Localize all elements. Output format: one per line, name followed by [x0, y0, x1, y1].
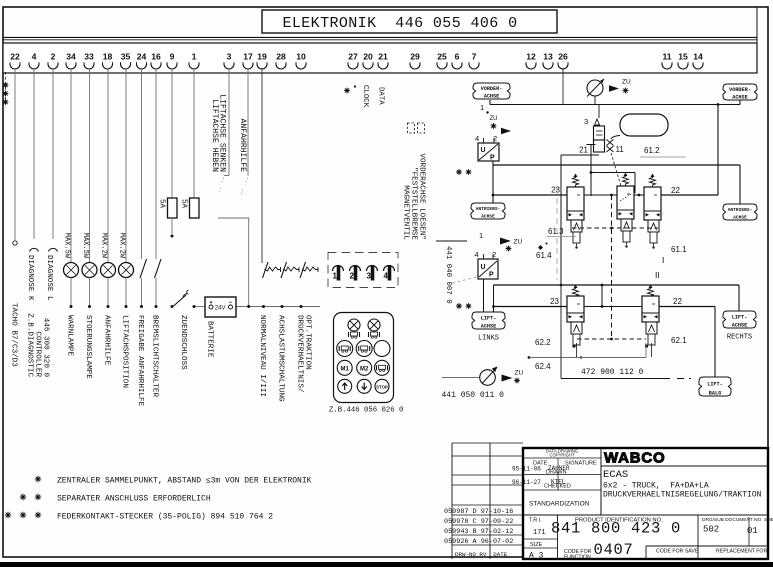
svg-text:RECHTS: RECHTS	[727, 334, 752, 342]
lamp ANFAHRHILFE (pin 18)	[100, 68, 116, 366]
svg-text:MAX.5W: MAX.5W	[63, 233, 71, 259]
svg-text:23: 23	[550, 297, 559, 306]
35-pin connector marking (three asterisks) on left frame	[3, 72, 9, 105]
svg-text:VORDER-: VORDER-	[481, 86, 503, 92]
pin 19	[257, 52, 267, 70]
svg-text:I: I	[662, 255, 664, 265]
svg-text:12: 12	[526, 52, 536, 62]
pin 15	[678, 52, 688, 70]
wire pin 3 (LIFTACHSE HEBEN)	[219, 68, 229, 192]
svg-text:441 040 007 0: 441 040 007 0	[444, 246, 452, 304]
central-point asterisk at pin 27	[344, 85, 356, 93]
svg-text:FUNCTION: FUNCTION	[564, 555, 591, 561]
pressure sensor 441 050 011 0	[442, 367, 524, 401]
svg-text:19: 19	[257, 52, 267, 62]
svg-text:ACHSE: ACHSE	[732, 322, 748, 328]
svg-text:Z.B.DIAGNOSTIC: Z.B.DIAGNOSTIC	[26, 313, 34, 377]
svg-text:24: 24	[137, 52, 147, 62]
svg-text:BREMSLICHTSCHALTER: BREMSLICHTSCHALTER	[151, 315, 159, 397]
svg-text:3: 3	[227, 52, 232, 62]
svg-text:13: 13	[543, 52, 553, 62]
LIFTACHSE RECHTS banner	[723, 311, 756, 342]
pin 13	[543, 52, 553, 70]
svg-text:ACHSLASTUMSCHALTUNG: ACHSLASTUMSCHALTUNG	[277, 315, 285, 402]
pin 29	[410, 52, 420, 70]
solenoid valve 23 (upper left)	[567, 174, 584, 249]
code for function 0407	[564, 515, 768, 561]
svg-text:5A: 5A	[180, 199, 188, 209]
svg-text:26: 26	[558, 52, 568, 62]
svg-text:22: 22	[671, 186, 680, 195]
port 61.3 label	[547, 227, 576, 237]
svg-text:059987 D 97-10-16: 059987 D 97-10-16	[444, 508, 513, 516]
ZU marking at sensor	[609, 79, 631, 94]
svg-text:1: 1	[480, 103, 484, 112]
LIFT-BALG banner	[699, 377, 731, 396]
svg-text:WABCO: WABCO	[604, 450, 666, 467]
wire port 22 (lower) to lift bag	[659, 297, 715, 377]
wire between valve A and valve B	[584, 194, 617, 197]
svg-text:ZUENDSCHLOSS: ZUENDSCHLOSS	[179, 315, 187, 370]
svg-text:LIFT-: LIFT-	[732, 315, 748, 321]
switch NORMALNIVEAU I/III	[258, 262, 280, 397]
svg-text:MAX.2W: MAX.2W	[100, 233, 108, 259]
svg-text:LIFT-: LIFT-	[481, 316, 497, 322]
switch FREIGABE ANFAHRHILFE (pin 24)	[136, 68, 146, 407]
port 61.2 label	[640, 146, 686, 157]
svg-text:DIAGNOSE K: DIAGNOSE K	[26, 255, 34, 301]
pin 22	[10, 52, 20, 70]
separate connection marking (U/P2)	[456, 303, 471, 309]
svg-text:ANFAHRHILFE: ANFAHRHILFE	[103, 315, 111, 366]
svg-text:4: 4	[475, 134, 479, 143]
svg-text:61.2: 61.2	[644, 146, 660, 155]
pin 18	[103, 52, 113, 70]
svg-text:62.4: 62.4	[535, 362, 551, 371]
svg-text:TACHO B7/C3/D3: TACHO B7/C3/D3	[10, 303, 18, 367]
svg-text:ZU: ZU	[515, 370, 524, 377]
label 441 040 007 0	[444, 246, 477, 304]
switch DRUCKVERHAELTNIS/	[296, 262, 318, 393]
valve 3 (pressure limiter)	[584, 105, 605, 152]
svg-text:25: 25	[437, 52, 447, 62]
wire port 22 to front-axle riser	[661, 105, 718, 196]
svg-text:62.2: 62.2	[535, 338, 551, 347]
ECU connector strip	[3, 43, 757, 73]
switch ACHSLASTUMSCHALTUNG	[277, 262, 299, 402]
pin 17	[243, 52, 253, 70]
lamp STOERUNGSLAMPE (pin 33)	[81, 68, 97, 379]
pin 1	[189, 52, 199, 70]
svg-text:441 050 011 0: 441 050 011 0	[442, 391, 505, 400]
svg-text:9: 9	[170, 52, 175, 62]
wire U/P2 to lift axle banner	[483, 279, 485, 312]
throttle 11	[607, 136, 625, 187]
svg-text:ECAS: ECAS	[603, 469, 628, 481]
ANTRIEBSACHSE left banner	[471, 203, 505, 219]
pin 10	[296, 52, 306, 70]
connector (4-pole) dashed box	[328, 253, 398, 288]
svg-text:61.4: 61.4	[536, 251, 552, 260]
svg-text:OPT.TRAKTION: OPT.TRAKTION	[304, 315, 312, 370]
pin 21	[378, 52, 388, 70]
svg-text:NORMALNIVEAU I/III: NORMALNIVEAU I/III	[258, 315, 266, 397]
svg-text:ZU: ZU	[514, 239, 523, 246]
wire pin 22 to tacho	[14, 68, 16, 240]
product identification no	[551, 518, 681, 538]
svg-text:4: 4	[475, 250, 479, 259]
svg-text:LIFTACHSPOSITION: LIFTACHSPOSITION	[121, 315, 129, 388]
svg-text:CHECKED: CHECKED	[544, 484, 571, 490]
pin 2	[48, 52, 58, 70]
svg-text:"FESTSTELLBREMSE: "FESTSTELLBREMSE	[410, 167, 418, 240]
svg-text:5A: 5A	[158, 199, 166, 209]
switch BREMSLICHTSCHALTER (pin 16)	[151, 68, 161, 397]
svg-text:STANDARDIZATION: STANDARDIZATION	[529, 501, 590, 508]
pin 7	[469, 52, 479, 70]
svg-text:DATA: DATA	[377, 87, 385, 105]
svg-text:II: II	[655, 270, 660, 280]
svg-text:62.1: 62.1	[671, 336, 687, 345]
node front axle supply line	[490, 100, 740, 106]
svg-text:Z.B.446 056 026 0: Z.B.446 056 026 0	[329, 407, 403, 415]
node battery feed junction	[247, 305, 250, 308]
svg-text:CODE FOR SAVE: CODE FOR SAVE	[656, 549, 699, 555]
wire port 23 line (lower)	[494, 297, 568, 307]
svg-text:11: 11	[616, 145, 625, 154]
svg-text:LINKS: LINKS	[478, 335, 499, 343]
svg-text:MAGNETVENTIL: MAGNETVENTIL	[402, 185, 410, 240]
LIFTACHSE LINKS banner	[472, 312, 505, 343]
title: ECAS description	[603, 469, 762, 500]
legend: zentraler sammelpunkt	[35, 476, 312, 486]
solenoid valve 22 (lower right)	[642, 285, 659, 358]
battery 24V	[205, 297, 236, 358]
VORDERACHSE left banner	[473, 83, 510, 99]
svg-text:7: 7	[472, 52, 477, 62]
svg-text:ANTRIEBS-: ANTRIEBS-	[476, 206, 501, 212]
svg-text:171: 171	[533, 529, 546, 537]
svg-text:22: 22	[10, 52, 20, 62]
svg-text:SEPARATER ANSCHLUSS ERFORDERLI: SEPARATER ANSCHLUSS ERFORDERLICH	[57, 495, 211, 504]
title block frame	[523, 448, 768, 559]
svg-text:4: 4	[384, 272, 389, 281]
solenoid valve 23 (lower left)	[567, 285, 584, 358]
svg-text:ZU: ZU	[490, 116, 498, 122]
fuse 5A (pin 9)	[158, 68, 177, 238]
remote control unit Z.B.446 056 026 0	[334, 313, 394, 403]
wire port 21 supply	[561, 145, 599, 286]
svg-text:0407: 0407	[594, 541, 634, 559]
pressure sensor (adjustable) 26	[587, 79, 604, 105]
svg-text:2: 2	[350, 272, 355, 281]
bus wire (battery positive rail)	[194, 306, 205, 308]
svg-text:1: 1	[479, 231, 483, 240]
svg-text:2: 2	[51, 52, 56, 62]
wire lower supply line (from 21)	[492, 284, 739, 312]
svg-text:3: 3	[584, 117, 588, 126]
svg-text:14: 14	[693, 52, 703, 62]
svg-text:21: 21	[579, 146, 588, 155]
svg-text:P: P	[489, 272, 494, 279]
svg-text:95-11-06: 95-11-06	[512, 466, 541, 473]
svg-text:VORDERACHSE LOESEN": VORDERACHSE LOESEN"	[418, 153, 426, 240]
separate connection marking (U/P1)	[456, 169, 471, 175]
fuse 5A (pin 1)	[180, 68, 199, 218]
svg-text:DRUCKVERHAELTNISREGELUNG/TRAKT: DRUCKVERHAELTNISREGELUNG/TRAKTION	[603, 491, 762, 500]
wire pin 17 (LIFTACHSE SENKEN)	[241, 68, 248, 195]
svg-text:27: 27	[348, 52, 358, 62]
svg-text:M1: M1	[341, 366, 350, 372]
wire port 23 line to valve block	[493, 186, 567, 196]
svg-text:CLOCK: CLOCK	[361, 85, 369, 108]
switch ZUENDSCHLOSS	[171, 290, 196, 370]
port 61.4 label	[536, 243, 552, 261]
svg-text:28: 28	[276, 52, 286, 62]
svg-text:3: 3	[367, 272, 372, 281]
svg-text:DRW-NO RV DATE: DRW-NO RV DATE	[455, 551, 508, 558]
diagnose L socket arc	[49, 248, 58, 251]
svg-text:MAX.2W: MAX.2W	[118, 233, 126, 259]
svg-text:059978 C 97-09-22: 059978 C 97-09-22	[444, 518, 513, 526]
pin 12	[526, 52, 536, 70]
legend: federkontakt-stecker	[5, 512, 273, 522]
svg-text:ANTRIEBS-: ANTRIEBS-	[728, 207, 753, 213]
pin 9	[167, 52, 177, 70]
svg-text:BATTERIE: BATTERIE	[206, 321, 214, 358]
svg-text:A 3: A 3	[529, 552, 544, 561]
svg-text:ACHSE: ACHSE	[481, 323, 497, 329]
diagnose K socket arc	[30, 248, 39, 251]
svg-text:LIFT-: LIFT-	[707, 382, 723, 388]
svg-text:STOP: STOP	[376, 384, 388, 389]
svg-text:STOERUNGSLAMPE: STOERUNGSLAMPE	[84, 315, 92, 379]
VORDERACHSE right banner	[723, 84, 757, 100]
svg-text:MAX.5W: MAX.5W	[81, 233, 89, 259]
svg-text:4: 4	[32, 52, 37, 62]
pin 33	[84, 52, 94, 70]
wire pin 19 down to switch	[261, 68, 263, 263]
label MAGNETVENTIL FESTSTELLBREMSE VORDERACHSE LOESEN	[402, 153, 426, 240]
valve block boundary dashes	[556, 188, 558, 280]
pin 20	[363, 52, 373, 70]
svg-text:18: 18	[103, 52, 113, 62]
pin 4	[29, 52, 39, 70]
svg-text:502: 502	[703, 525, 719, 535]
svg-text:6x2 - TRUCK, FA+DA+LA: 6x2 - TRUCK, FA+DA+LA	[603, 482, 709, 491]
solenoid valve (upper middle)	[617, 173, 634, 248]
title block: date/signature rows	[512, 458, 601, 508]
svg-text:10: 10	[296, 52, 306, 62]
svg-text:01: 01	[747, 526, 758, 536]
revision table	[444, 443, 523, 559]
svg-text:COPYRIGHT: COPYRIGHT	[550, 453, 575, 458]
ECU title box ELEKTRONIK 446 055 406 0	[262, 10, 557, 33]
pin 3	[224, 52, 234, 70]
svg-text:ACHSE: ACHSE	[733, 214, 747, 220]
pin 24	[137, 52, 147, 70]
air reservoir	[620, 114, 668, 136]
svg-text:6: 6	[455, 52, 460, 62]
svg-text:T.R.I.: T.R.I.	[529, 518, 542, 524]
port 62.4 label and pilot feed	[528, 343, 646, 371]
pin 14	[693, 52, 703, 70]
svg-text:ZENTRALER SAMMELPUNKT, ABSTAND: ZENTRALER SAMMELPUNKT, ABSTAND ≤3m VON D…	[57, 477, 312, 486]
wire feed jog to battery bus	[218, 218, 249, 307]
svg-text:15: 15	[678, 52, 688, 62]
pin 35	[121, 52, 131, 70]
solenoid valve 22 (upper right)	[644, 174, 661, 249]
svg-text:VORDER-: VORDER-	[729, 87, 751, 93]
sub-assembly boundary 472 900 112 0	[561, 285, 691, 379]
pin 28	[276, 52, 286, 70]
node tacho terminal	[13, 241, 17, 245]
legend: separater anschluss	[20, 494, 211, 504]
svg-text:33: 33	[84, 52, 94, 62]
svg-text:29: 29	[410, 52, 420, 62]
svg-text:11: 11	[662, 52, 671, 62]
svg-text:23: 23	[551, 186, 560, 195]
wire pin 4 diagnose K	[33, 68, 35, 239]
wire pin 29 to magnetventil	[408, 123, 425, 133]
svg-text:1: 1	[333, 272, 338, 281]
title block: T.R.I / size cells	[523, 515, 558, 561]
svg-text:35: 35	[121, 52, 131, 62]
svg-text:ACHSE: ACHSE	[481, 213, 495, 219]
svg-text:U: U	[481, 147, 486, 154]
svg-text:ANFAHRHILFE: ANFAHRHILFE	[238, 119, 247, 173]
svg-text:21: 21	[378, 52, 388, 62]
pin 26	[558, 52, 568, 70]
svg-text:LIFTACHSE SENKEN: LIFTACHSE SENKEN	[218, 94, 227, 172]
wire pilot link	[590, 171, 644, 196]
svg-text:20: 20	[363, 52, 373, 62]
pin 6	[452, 52, 462, 70]
svg-text:17: 17	[243, 52, 253, 62]
svg-text:841 800 423 0: 841 800 423 0	[551, 520, 681, 538]
wire U/P1 output to drive-axle banner	[492, 161, 740, 204]
lamp LIFTACHSPOSITION (pin 35)	[118, 68, 134, 388]
U/P converter 1 (441 040 007 0)	[475, 103, 511, 162]
svg-text:M2: M2	[360, 366, 369, 372]
svg-text:ACHSE: ACHSE	[484, 93, 500, 99]
wire pin 2 diagnose L	[52, 68, 54, 239]
svg-text:1: 1	[192, 52, 197, 62]
svg-text:446 300 320 0: 446 300 320 0	[42, 318, 50, 378]
svg-text:FREIGABE ANFAHRHILFE: FREIGABE ANFAHRHILFE	[136, 315, 144, 407]
pilot control dashed lines (upper)	[572, 195, 658, 339]
pin 11	[662, 52, 672, 70]
svg-text:REPLACEMENT FOR: REPLACEMENT FOR	[716, 549, 767, 555]
svg-text:DRUCKVERHAELTNIS/: DRUCKVERHAELTNIS/	[296, 315, 304, 393]
wire between lower valves	[584, 306, 642, 308]
svg-text:P: P	[490, 155, 495, 162]
svg-text:472 900 112 0: 472 900 112 0	[581, 368, 644, 377]
svg-text:SIZE: SIZE	[530, 542, 543, 548]
pin 25	[437, 52, 447, 70]
svg-text:DRG/SUB DOCUMENT NO SHEET: DRG/SUB DOCUMENT NO SHEET	[702, 517, 773, 523]
pin 34	[66, 52, 76, 70]
U/P converter 2 (441 040 007 0)	[436, 231, 522, 279]
svg-text:ELEKTRONIK 446 055 406 0: ELEKTRONIK 446 055 406 0	[282, 15, 517, 32]
wire pin 26 to pressure sensor	[562, 68, 564, 105]
svg-text:DIAGNOSE L: DIAGNOSE L	[45, 255, 53, 301]
svg-text:BALG: BALG	[709, 390, 721, 396]
svg-text:FEDERKONTAKT-STECKER (35-POLIG: FEDERKONTAKT-STECKER (35-POLIG) 894 510 …	[57, 513, 273, 522]
svg-text:16: 16	[151, 52, 161, 62]
svg-text:22: 22	[673, 297, 682, 306]
svg-text:96-11-27: 96-11-27	[512, 479, 541, 486]
ANTRIEBSACHSE right banner	[723, 204, 757, 220]
svg-text:34: 34	[66, 52, 76, 62]
lamp WARNLAMPE (pin 34)	[63, 68, 79, 356]
pin 16	[151, 52, 161, 70]
svg-text:ACHSE: ACHSE	[732, 94, 748, 100]
pilot control dashed line (lower)	[577, 338, 646, 341]
svg-text:U: U	[481, 264, 486, 271]
svg-text:61.1: 61.1	[671, 245, 687, 254]
svg-text:24V: 24V	[215, 306, 226, 312]
pin 27	[348, 52, 358, 70]
svg-text:059926 A 96-07-02: 059926 A 96-07-02	[444, 538, 513, 546]
label Z.B. DIAGNOSTIC CONTROLLER 446 300 320 0	[26, 313, 50, 377]
svg-text:SIGNATURE: SIGNATURE	[565, 461, 597, 467]
svg-text:61.3: 61.3	[548, 227, 564, 236]
svg-text:ZU: ZU	[622, 79, 631, 86]
svg-text:WARNLAMPE: WARNLAMPE	[66, 315, 74, 356]
drg/sub document no sheet	[702, 517, 773, 536]
title block: copyright cell	[523, 449, 601, 459]
svg-text:CONTROLLER: CONTROLLER	[34, 331, 42, 377]
svg-text:059943 B 97-02-12: 059943 B 97-02-12	[444, 528, 513, 536]
